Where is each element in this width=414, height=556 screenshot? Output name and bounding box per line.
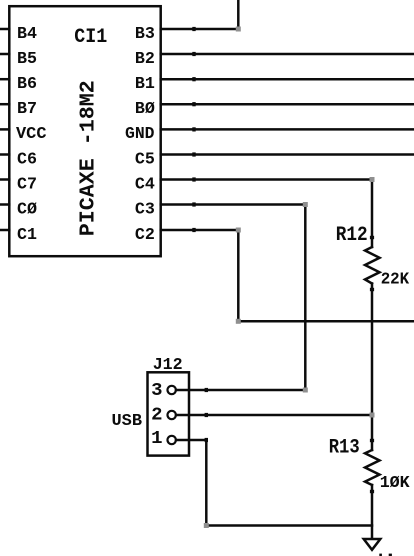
svg-text:CØ: CØ: [17, 200, 37, 219]
J12 pin 1 pad circle: [168, 436, 176, 444]
svg-text:B5: B5: [17, 50, 37, 69]
pin end dot B3: [192, 27, 195, 31]
wire R13 bottom to ground: [371, 485, 374, 538]
svg-text:B1: B1: [135, 75, 155, 94]
wire pin1 net horizontal to ground node: [206, 524, 372, 527]
wire B3 vertical to top edge: [237, 0, 240, 29]
svg-text:B7: B7: [17, 100, 37, 119]
pin VCC stub: [0, 128, 9, 131]
node marker B3 corner: [236, 27, 241, 32]
pin end dot J12-2: [205, 413, 208, 417]
wire R12 bottom to junction: [371, 284, 374, 451]
wire C2 net horizontal to right edge: [238, 320, 414, 323]
node marker R junction: [370, 413, 375, 418]
svg-text:C4: C4: [135, 175, 155, 194]
svg-text:J12: J12: [153, 356, 183, 375]
svg-text:3: 3: [151, 380, 162, 401]
wire B3 horizontal: [161, 28, 239, 31]
pin end dot B2: [192, 52, 195, 56]
pin end dot C2: [192, 228, 195, 232]
pin C0 stub: [0, 203, 9, 206]
svg-text:22K: 22K: [381, 271, 410, 290]
wire C4 horizontal: [161, 178, 372, 181]
svg-text:1ØK: 1ØK: [380, 474, 411, 493]
pin B6 stub: [0, 78, 9, 81]
ground symbol triangle: [364, 539, 381, 550]
svg-text:PICAXE -18M2: PICAXE -18M2: [77, 80, 100, 236]
resistor R13 zigzag: [365, 450, 380, 485]
wire J12 pin1 horizontal: [176, 439, 206, 442]
pin end dot R12 bottom: [370, 288, 374, 291]
IC CI1 body: [9, 6, 160, 256]
J12 pin 2 pad circle: [168, 411, 176, 419]
svg-text:CI1: CI1: [74, 26, 107, 49]
pin end dot R12 top: [370, 236, 374, 239]
resistor R12 zigzag: [365, 247, 380, 284]
pin B5 stub: [0, 53, 9, 56]
svg-text:R13: R13: [329, 437, 360, 460]
pin end dot C5: [192, 152, 195, 156]
cut-off text at bottom edge: [379, 554, 382, 556]
wire B1: [161, 78, 414, 81]
wire J12 pin2 to R junction: [176, 414, 372, 417]
wire GND: [161, 128, 414, 131]
svg-text:B3: B3: [135, 25, 155, 44]
pin end dot B0: [192, 102, 195, 106]
pin C6 stub: [0, 153, 9, 156]
pin end dot J12-1: [205, 438, 208, 442]
svg-text:C7: C7: [17, 175, 37, 194]
svg-text:VCC: VCC: [16, 125, 47, 144]
wire J12 pin1 vertical down: [205, 440, 208, 526]
node marker C3 net bottom corner: [303, 388, 308, 393]
svg-text:B2: B2: [135, 50, 155, 69]
wire C2 vertical down: [237, 230, 240, 321]
svg-text:C5: C5: [135, 150, 155, 169]
pin end dot GND: [192, 127, 195, 131]
wire B0: [161, 103, 414, 106]
pin C1 stub: [0, 229, 9, 232]
wire C5: [161, 153, 414, 156]
pin end dot R13 top: [370, 439, 374, 442]
pin end dot C4: [192, 177, 195, 181]
connector J12 body: [148, 372, 190, 455]
svg-text:BØ: BØ: [135, 100, 155, 119]
node marker C2 corner: [236, 228, 241, 233]
node marker C3 corner: [303, 202, 308, 207]
wire B2: [161, 53, 414, 56]
wire C3 vertical down: [304, 205, 307, 391]
pin end dot R13 bottom: [370, 490, 374, 493]
J12 pin 3 pad circle: [168, 386, 176, 394]
svg-text:B6: B6: [17, 75, 37, 94]
svg-text:C3: C3: [135, 200, 155, 219]
wire C3 horizontal: [161, 203, 306, 206]
svg-text:B4: B4: [17, 25, 37, 44]
svg-text:C2: C2: [135, 226, 155, 245]
node marker pin1 net corner: [204, 523, 209, 528]
svg-text:C6: C6: [17, 150, 37, 169]
pin end dot C3: [192, 202, 195, 206]
pin B4 stub: [0, 28, 9, 31]
wire C2 horizontal: [161, 229, 239, 232]
svg-text:2: 2: [151, 404, 162, 425]
node marker C2 net corner: [236, 319, 241, 324]
svg-text:USB: USB: [112, 411, 143, 430]
pin end dot J12-3: [205, 388, 208, 392]
node marker C4 corner: [370, 177, 375, 182]
wire J12 pin3 to C3 net: [176, 389, 305, 392]
svg-text:GND: GND: [125, 125, 155, 144]
pin B7 stub: [0, 103, 9, 106]
svg-text:R12: R12: [336, 224, 368, 247]
pin C7 stub: [0, 178, 9, 181]
svg-text:C1: C1: [17, 226, 37, 245]
wire C4 vertical down to R12: [371, 180, 374, 248]
svg-text:1: 1: [151, 428, 162, 449]
pin end dot B1: [192, 77, 195, 81]
